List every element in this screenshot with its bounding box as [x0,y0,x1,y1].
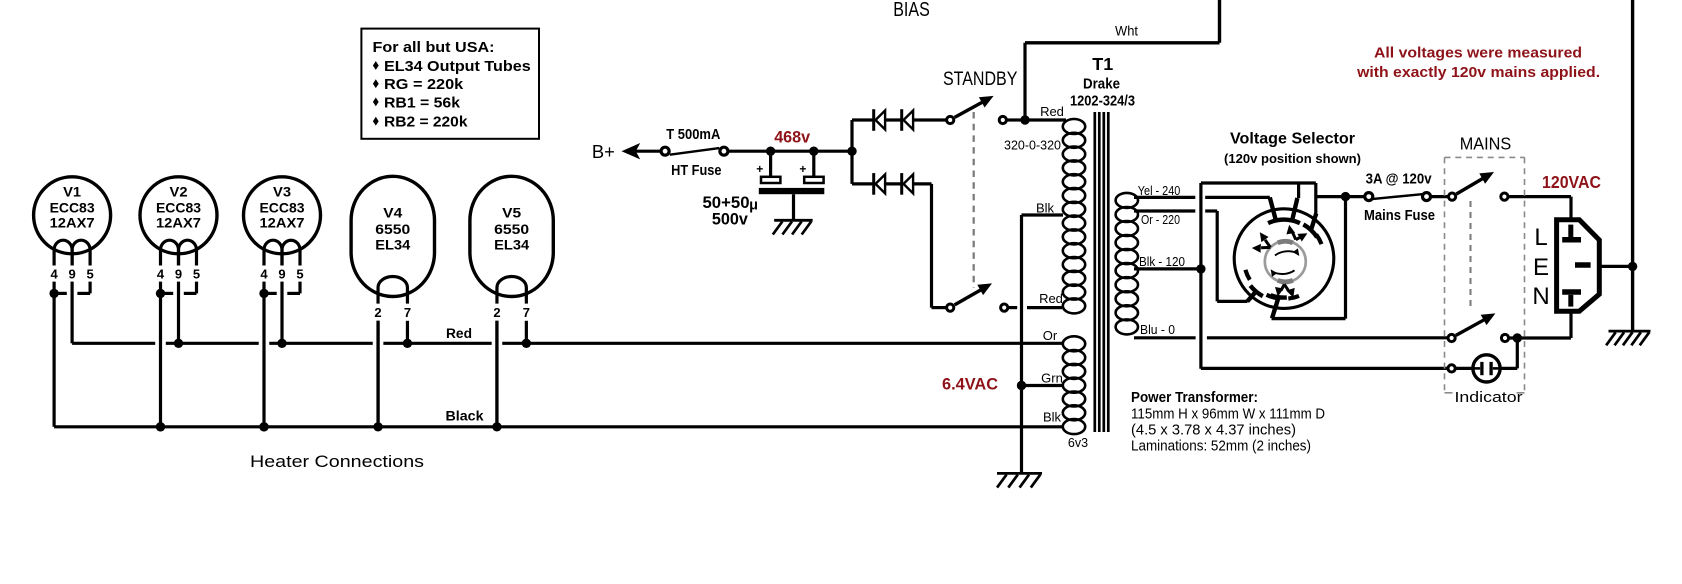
svg-text:V5: V5 [502,205,522,220]
svg-text:(4.5 x 3.78 x 4.37 inches): (4.5 x 3.78 x 4.37 inches) [1131,422,1296,439]
svg-text:V1: V1 [63,185,82,200]
svg-text:9: 9 [278,267,285,282]
svg-text:Red: Red [1040,104,1064,119]
svg-text:Red: Red [1039,291,1063,306]
svg-text:For all but USA:: For all but USA: [373,39,495,56]
svg-text:RB2 = 220k: RB2 = 220k [384,114,468,131]
svg-text:5: 5 [296,267,303,282]
svg-text:V3: V3 [273,185,292,200]
svg-text:6v3: 6v3 [1068,436,1088,450]
svg-text:E: E [1533,254,1549,281]
svg-text:L: L [1534,224,1547,251]
svg-text:V4: V4 [383,205,403,220]
svg-text:HT Fuse: HT Fuse [671,162,721,179]
svg-text:μ: μ [749,197,758,213]
svg-text:12AX7: 12AX7 [156,216,201,231]
svg-text:Heater Connections: Heater Connections [250,453,424,471]
svg-text:+: + [799,162,806,176]
svg-text:1202-324/3: 1202-324/3 [1070,94,1135,110]
svg-text:12AX7: 12AX7 [50,216,95,231]
svg-text:RG = 220k: RG = 220k [384,76,464,93]
svg-text:9: 9 [68,267,75,282]
svg-text:ECC83: ECC83 [156,200,201,215]
svg-text:Red: Red [446,326,472,341]
svg-text:STANDBY: STANDBY [943,68,1018,90]
svg-text:Or - 220: Or - 220 [1141,212,1180,227]
svg-text:320-0-320: 320-0-320 [1004,138,1061,153]
svg-text:EL34 Output Tubes: EL34 Output Tubes [384,58,531,75]
svg-text:4: 4 [50,267,58,282]
svg-text:All voltages were measured: All voltages were measured [1374,45,1582,62]
svg-text:V2: V2 [170,185,188,200]
svg-text:6.4VAC: 6.4VAC [942,374,998,393]
svg-text:468v: 468v [774,128,811,147]
svg-text:Mains Fuse: Mains Fuse [1364,207,1435,224]
svg-text:T1: T1 [1092,54,1113,74]
svg-text:5: 5 [86,267,93,282]
svg-text:ECC83: ECC83 [50,200,95,215]
svg-text:12AX7: 12AX7 [260,216,305,231]
svg-text:BIAS: BIAS [893,0,930,21]
svg-text:Blk: Blk [1043,410,1062,425]
svg-text:5: 5 [193,267,200,282]
svg-text:MAINS: MAINS [1460,134,1512,154]
svg-text:115mm H x 96mm W x 111mm D: 115mm H x 96mm W x 111mm D [1131,405,1325,422]
svg-text:Black: Black [446,408,485,423]
svg-text:EL34: EL34 [375,238,411,253]
svg-text:B+: B+ [592,141,615,162]
svg-text:Blu - 0: Blu - 0 [1140,322,1175,337]
svg-text:7: 7 [404,305,411,320]
svg-text:6550: 6550 [494,222,529,237]
svg-text:Grn: Grn [1041,370,1063,385]
svg-text:N: N [1532,283,1549,310]
svg-text:+: + [756,162,763,176]
svg-text:Power Transformer:: Power Transformer: [1131,389,1258,406]
svg-text:T 500mA: T 500mA [666,126,720,143]
svg-text:9: 9 [175,267,182,282]
svg-text:Wht: Wht [1115,23,1138,38]
svg-text:500v: 500v [712,210,749,229]
svg-text:Laminations: 52mm (2 inches): Laminations: 52mm (2 inches) [1131,438,1311,455]
svg-text:2: 2 [374,305,381,320]
svg-text:Or: Or [1043,328,1058,343]
svg-text:Yel - 240: Yel - 240 [1138,183,1181,198]
svg-text:6550: 6550 [375,222,410,237]
svg-text:EL34: EL34 [494,238,530,253]
svg-text:ECC83: ECC83 [260,200,305,215]
svg-text:3A @ 120v: 3A @ 120v [1366,170,1433,187]
svg-text:Indicator: Indicator [1455,389,1523,406]
svg-text:120VAC: 120VAC [1542,172,1601,192]
svg-text:RB1 = 56k: RB1 = 56k [384,94,461,111]
svg-text:4: 4 [157,267,165,282]
svg-text:Drake: Drake [1083,77,1120,93]
svg-text:Blk - 120: Blk - 120 [1139,254,1185,269]
svg-text:7: 7 [523,305,530,320]
svg-text:with exactly 120v mains applie: with exactly 120v mains applied. [1356,64,1600,81]
svg-text:(120v position shown): (120v position shown) [1224,152,1361,166]
svg-text:Blk: Blk [1036,201,1055,216]
svg-text:Voltage Selector: Voltage Selector [1230,131,1355,148]
svg-text:2: 2 [493,305,500,320]
svg-text:4: 4 [260,267,268,282]
